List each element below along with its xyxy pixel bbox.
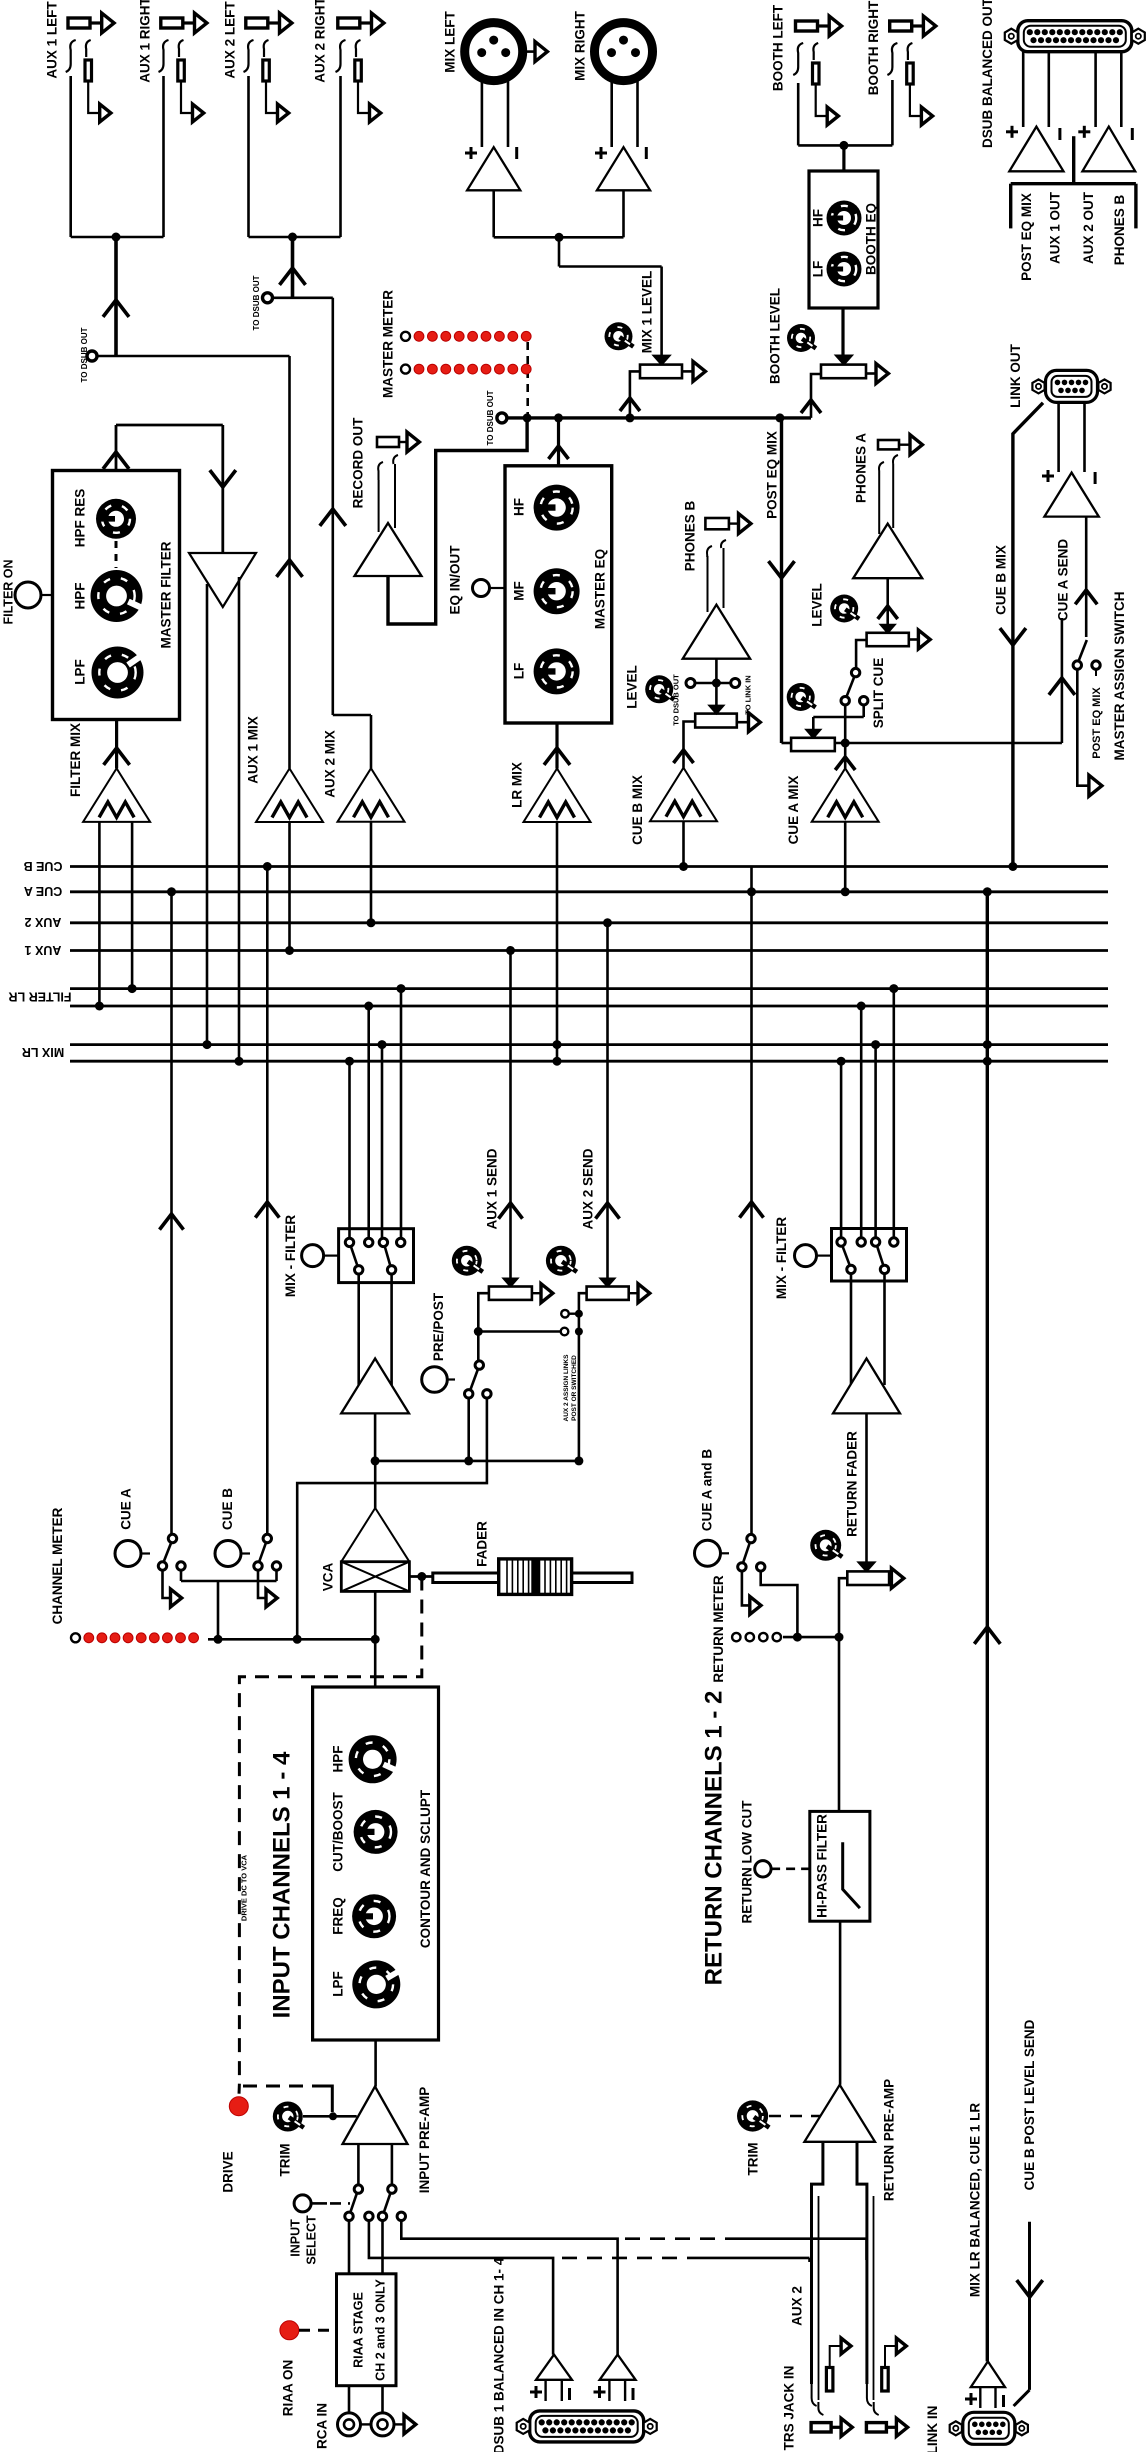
amp DSUB1 in L [530, 2355, 572, 2401]
svg-text:DSUB BALANCED OUT: DSUB BALANCED OUT [980, 0, 995, 148]
amp FILTER MIX [68, 720, 150, 822]
svg-text:TO DSUB OUT: TO DSUB OUT [80, 327, 89, 382]
amp dsub out 1 [1006, 52, 1064, 171]
svg-text:LEVEL: LEVEL [810, 583, 825, 627]
wire MIX amps feed [494, 190, 662, 356]
svg-text:LINK IN: LINK IN [925, 2406, 940, 2452]
led DRIVE [221, 2097, 249, 2193]
amp CUE A MIX [786, 743, 879, 844]
bus MIX LR [22, 1045, 1108, 1062]
wire switch to post amp [359, 1274, 392, 1385]
block BOOTH EQ [809, 171, 879, 308]
wire cue tap return channel [740, 867, 764, 1535]
svg-text:TRS JACK IN: TRS JACK IN [782, 2366, 797, 2451]
svg-text:TRIM: TRIM [278, 2144, 293, 2177]
wire record amp feed [388, 418, 527, 624]
svg-text:CUE B: CUE B [220, 1488, 235, 1530]
amp MIX RIGHT driver [595, 80, 650, 190]
wire dsub1 to return (dashed) [562, 2239, 867, 2262]
switch RETURN LOW CUT [739, 1800, 810, 1924]
wire AUX1 jacks join [71, 76, 164, 242]
svg-text:RCA IN: RCA IN [315, 2403, 330, 2449]
svg-text:HPF: HPF [73, 583, 88, 610]
svg-text:CUE A MIX: CUE A MIX [786, 776, 801, 845]
pot MIX 1 LEVEL [605, 271, 706, 418]
amp AUX 2 MIX [323, 730, 405, 822]
wire return assign to buses [837, 984, 899, 1238]
svg-text:DSUB 1 BALANCED IN CH 1- 4: DSUB 1 BALANCED IN CH 1- 4 [491, 2257, 506, 2452]
svg-text:FREQ: FREQ [331, 1897, 346, 1935]
wire AUX 2 MIX input [367, 822, 376, 928]
svg-text:PHONES B: PHONES B [682, 500, 697, 571]
node TO DSUB OUT (post eq) [486, 390, 507, 445]
amp PHONES B [683, 548, 750, 659]
svg-text:FILTER MIX: FILTER MIX [68, 723, 83, 797]
wire return preamp inputs [812, 2142, 874, 2400]
label RETURN CHANNELS 1 - 2 [700, 1691, 727, 1986]
switch box MIX-FILTER (input) [283, 1215, 414, 1297]
wire CUE A SEND [1049, 539, 1075, 743]
svg-text:POST EQ MIX: POST EQ MIX [1091, 687, 1103, 759]
svg-text:MF: MF [512, 581, 527, 601]
svg-text:AUX 2 MIX: AUX 2 MIX [323, 730, 338, 798]
pot BOOTH LEVEL fader [768, 288, 889, 418]
wire AUX 1 MIX input [285, 822, 294, 955]
wire hipass to preamp [839, 1921, 842, 2085]
wire FILTER MIX inputs [95, 822, 137, 1011]
meter MASTER METER [381, 290, 531, 418]
svg-text:RETURN PRE-AMP: RETURN PRE-AMP [882, 2079, 897, 2201]
amp channel post amp [341, 1359, 409, 1462]
svg-text:LEVEL: LEVEL [625, 665, 640, 709]
svg-text:HF: HF [811, 209, 826, 227]
block CONTOUR AND SCULPT [268, 1687, 438, 2040]
svg-text:RETURN FADER: RETURN FADER [845, 1431, 860, 1537]
node TO DSUB OUT (aux2) [252, 275, 273, 330]
wire post-fade send rail [371, 1456, 584, 1465]
svg-text:CHANNEL METER: CHANNEL METER [50, 1507, 65, 1624]
svg-text:CUE B POST LEVEL SEND: CUE B POST LEVEL SEND [1022, 2019, 1037, 2190]
svg-text:TRIM: TRIM [745, 2143, 760, 2176]
amp filter return inverter [189, 553, 256, 607]
block HI-PASS FILTER [810, 1811, 870, 1921]
wire POST EQ MIX rail [507, 413, 811, 422]
wire CUE B POST LEVEL SEND [1014, 2019, 1043, 2406]
wire AUX1 to dsub/mix [97, 237, 303, 769]
svg-text:PHONES B: PHONES B [1112, 194, 1127, 265]
svg-text:INPUT: INPUT [288, 2219, 302, 2257]
jack AUX 1 RIGHT [138, 0, 207, 122]
switch CUE A and B (return) [695, 1449, 798, 1637]
node TO DSUB OUT (aux1) [80, 327, 97, 382]
svg-text:SPLIT CUE: SPLIT CUE [871, 658, 886, 729]
svg-text:CUE A: CUE A [24, 884, 62, 898]
bus AUX 1 [25, 943, 1108, 957]
vca VCA [321, 1461, 410, 1591]
amp return post amp [833, 1359, 900, 1564]
switch MASTER ASSIGN SWITCH [1073, 517, 1127, 797]
svg-text:POST OR SWITCHED: POST OR SWITCHED [571, 1355, 578, 1421]
svg-text:AUX 2 LEFT: AUX 2 LEFT [223, 1, 238, 79]
svg-text:INPUT CHANNELS 1 - 4: INPUT CHANNELS 1 - 4 [268, 1751, 295, 2018]
svg-text:HPF: HPF [331, 1746, 346, 1773]
svg-text:INPUT PRE-AMP: INPUT PRE-AMP [417, 2087, 432, 2194]
svg-text:AUX 1 SEND: AUX 1 SEND [484, 1148, 499, 1229]
svg-text:CONTOUR AND SCLUPT: CONTOUR AND SCLUPT [418, 1789, 433, 1948]
switch EQ IN/OUT [448, 545, 505, 615]
svg-text:CH 2 and 3 ONLY: CH 2 and 3 ONLY [373, 2279, 387, 2381]
svg-text:BOOTH LEFT: BOOTH LEFT [771, 4, 786, 91]
svg-text:RETURN LOW CUT: RETURN LOW CUT [739, 1800, 754, 1924]
svg-text:RETURN METER: RETURN METER [711, 1575, 726, 1682]
svg-text:FADER: FADER [474, 1521, 489, 1567]
svg-text:RIAA ON: RIAA ON [281, 2360, 296, 2417]
svg-text:TO LINK IN: TO LINK IN [744, 675, 753, 714]
svg-text:POST EQ MIX: POST EQ MIX [1019, 193, 1034, 281]
wire POST EQ MIX feed [764, 418, 794, 743]
block RIAA STAGE [337, 2274, 397, 2386]
bus AUX 2 [25, 915, 1108, 929]
svg-text:LINK OUT: LINK OUT [1008, 343, 1023, 407]
pot TRIM (return) [737, 2100, 821, 2175]
svg-text:MIX - FILTER: MIX - FILTER [774, 1217, 789, 1299]
svg-text:MIX LR: MIX LR [22, 1045, 64, 1059]
link AUX 2 assign [474, 1310, 583, 1461]
switch PRE/POST [297, 1292, 491, 1639]
amp LR MIX [510, 723, 591, 822]
amp RECORD OUT [355, 523, 422, 576]
svg-text:TO DSUB OUT: TO DSUB OUT [672, 674, 681, 726]
pot TRIM (input) [273, 2102, 357, 2177]
pot PHONES A LEVEL [810, 578, 931, 668]
wire CUE B MIX to link out [994, 403, 1043, 871]
svg-text:AUX 1 LEFT: AUX 1 LEFT [45, 1, 60, 79]
svg-text:DRIVE DC TO VCA: DRIVE DC TO VCA [239, 1854, 248, 1921]
pot CUE A LEVEL fader [787, 683, 835, 751]
svg-text:MASTER ASSIGN SWITCH: MASTER ASSIGN SWITCH [1112, 591, 1127, 760]
svg-text:LPF: LPF [73, 659, 88, 685]
svg-text:EQ IN/OUT: EQ IN/OUT [448, 545, 463, 615]
svg-text:AUX 2 SEND: AUX 2 SEND [581, 1148, 596, 1229]
svg-text:MIX 1 LEVEL: MIX 1 LEVEL [640, 271, 655, 354]
wire LR MIX input [553, 822, 562, 1066]
svg-text:RECORD OUT: RECORD OUT [351, 417, 366, 509]
jack TRS JACK IN 2 [782, 2338, 908, 2450]
block MASTER FILTER [53, 471, 180, 720]
switch SPLIT CUE [806, 658, 886, 743]
connector DSUB BALANCED OUT [980, 0, 1145, 148]
svg-text:AUX 2 OUT: AUX 2 OUT [1081, 191, 1096, 264]
wire filter to inverter [103, 425, 236, 553]
led RIAA ON [280, 2321, 337, 2416]
svg-text:AUX 1 OUT: AUX 1 OUT [1047, 191, 1062, 264]
node TO DSUB OUT / TO LINK IN [672, 659, 753, 726]
wire AUX2 jacks join [249, 76, 341, 242]
svg-text:HF: HF [512, 498, 527, 516]
svg-text:CUE A and B: CUE A and B [700, 1449, 715, 1532]
svg-text:FILTER LR: FILTER LR [9, 990, 72, 1004]
svg-text:AUX 2: AUX 2 [25, 915, 62, 929]
svg-text:MIX LR BALANCED, CUE 1 LR: MIX LR BALANCED, CUE 1 LR [967, 2103, 982, 2298]
svg-text:TO DSUB OUT: TO DSUB OUT [486, 390, 495, 445]
svg-text:LR MIX: LR MIX [510, 762, 525, 808]
wire inverter to MIX LR buses [203, 577, 244, 1066]
jack TRS JACK IN 1 [790, 2286, 853, 2436]
amp dsub out 2 [1078, 52, 1135, 171]
bus CUE A [24, 884, 1108, 898]
jack BOOTH LEFT [771, 4, 842, 125]
switch FILTER ON [1, 559, 52, 624]
svg-text:HI-PASS FILTER: HI-PASS FILTER [815, 1814, 830, 1918]
fader FADER [409, 1521, 632, 1595]
svg-text:AUX 1 RIGHT: AUX 1 RIGHT [138, 0, 153, 83]
svg-text:BOOTH LEVEL: BOOTH LEVEL [768, 288, 783, 384]
svg-text:CUE B MIX: CUE B MIX [630, 775, 645, 845]
svg-text:RIAA STAGE: RIAA STAGE [351, 2292, 365, 2368]
amp PHONES A [853, 524, 922, 579]
connector MIX RIGHT XLR [573, 10, 653, 81]
amp LINK IN [965, 2103, 1005, 2408]
amp DSUB1 in R [594, 2355, 636, 2401]
wire cue switches to meter line [181, 1570, 277, 1639]
wire EQ out to rail [549, 418, 569, 466]
svg-text:PHONES A: PHONES A [854, 433, 869, 503]
svg-text:RETURN CHANNELS 1 - 2: RETURN CHANNELS 1 - 2 [700, 1691, 727, 1986]
svg-text:SELECT: SELECT [304, 2215, 318, 2265]
pot AUX 2 SEND [546, 918, 650, 1313]
bus CUE B [24, 859, 1108, 873]
wire drive dc to vca (dashed) [239, 1577, 422, 2113]
wire input select wiring [349, 2221, 618, 2355]
amp LINK OUT driver [1042, 403, 1099, 517]
svg-text:VCA: VCA [321, 1563, 336, 1592]
svg-text:CUE A: CUE A [119, 1488, 134, 1530]
svg-text:MIX RIGHT: MIX RIGHT [573, 10, 588, 81]
svg-text:AUX 2: AUX 2 [790, 2286, 805, 2326]
svg-text:CUE B MIX: CUE B MIX [994, 545, 1009, 615]
meter CHANNEL METER [50, 1507, 375, 1643]
wire CUE B MIX input [679, 821, 688, 871]
svg-text:LPF: LPF [331, 1971, 346, 1997]
wire LINK IN to buses [974, 887, 1000, 2361]
amp CUE B MIX [630, 768, 717, 845]
svg-text:AUX 2 ASSIGN LINKS: AUX 2 ASSIGN LINKS [563, 1354, 570, 1422]
svg-text:DRIVE: DRIVE [221, 2151, 236, 2192]
wire vca to contour box [371, 1591, 380, 1687]
svg-text:MIX LEFT: MIX LEFT [443, 11, 458, 73]
svg-text:TO DSUB OUT: TO DSUB OUT [252, 275, 261, 330]
bus FILTER LR [9, 989, 1108, 1006]
amp AUX 1 MIX [246, 716, 324, 822]
wire CUE B tap to channel [255, 862, 279, 1535]
wire AUX2 to dsub/mix [272, 237, 371, 768]
wire return switch to post amp [851, 1274, 885, 1385]
svg-text:MASTER METER: MASTER METER [381, 290, 396, 398]
wire dsub out bracket [1011, 136, 1136, 281]
svg-text:PRE/POST: PRE/POST [431, 1292, 446, 1361]
svg-text:AUX 2 RIGHT: AUX 2 RIGHT [313, 0, 328, 83]
wire contour to preamp [374, 2040, 377, 2087]
wire input assign to buses [345, 984, 406, 1238]
amp RETURN PRE-AMP [804, 2079, 896, 2201]
pot PHONES B LEVEL fader [625, 665, 761, 767]
pot AUX 1 SEND [452, 946, 553, 1332]
connector MIX LEFT XLR [443, 11, 548, 81]
wire CUE A MIX input [841, 822, 850, 897]
switch INPUT SELECT [288, 2144, 405, 2265]
connector DSUB 1 IN [491, 2257, 656, 2452]
jack AUX 2 RIGHT [313, 0, 384, 122]
svg-text:CUE B: CUE B [24, 859, 63, 873]
jack BOOTH RIGHT [866, 0, 936, 125]
jack PHONES A [854, 433, 923, 534]
wire booth jacks join [798, 80, 892, 171]
svg-text:CUT/BOOST: CUT/BOOST [331, 1791, 346, 1871]
svg-text:CUE A SEND: CUE A SEND [1056, 539, 1071, 622]
svg-text:MIX - FILTER: MIX - FILTER [283, 1215, 298, 1297]
svg-text:AUX 1: AUX 1 [25, 943, 62, 957]
amp MIX LEFT driver [465, 80, 520, 190]
svg-text:HPF RES: HPF RES [73, 489, 88, 548]
svg-text:FILTER ON: FILTER ON [1, 559, 15, 624]
svg-text:MASTER FILTER: MASTER FILTER [159, 541, 174, 648]
connector LINK OUT DB9 [1008, 343, 1110, 407]
wire CUE A tap to channel [160, 887, 184, 1534]
switch CUE B (input) [215, 1488, 281, 1607]
jack PHONES B [682, 500, 751, 571]
amp INPUT PRE-AMP [343, 2087, 433, 2194]
switch box MIX-FILTER (return) [774, 1217, 906, 1299]
svg-text:AUX 1 MIX: AUX 1 MIX [246, 716, 261, 784]
connector LINK IN DB9 [925, 2406, 1028, 2452]
connector RCA IN [315, 2386, 416, 2449]
pot RETURN FADER [810, 1431, 904, 1812]
block MASTER EQ [505, 466, 612, 723]
jack AUX 2 LEFT [223, 1, 292, 122]
svg-text:MASTER EQ: MASTER EQ [593, 549, 608, 629]
meter RETURN METER [711, 1575, 839, 1682]
jack RECORD OUT [351, 417, 420, 532]
svg-text:BOOTH EQ: BOOTH EQ [864, 203, 879, 275]
jack AUX 1 LEFT [45, 1, 114, 122]
svg-text:LF: LF [811, 261, 826, 278]
wire cue A send rail [835, 739, 1062, 748]
svg-text:POST EQ MIX: POST EQ MIX [764, 431, 779, 519]
switch CUE A (input) [115, 1488, 185, 1607]
svg-text:BOOTH RIGHT: BOOTH RIGHT [866, 0, 881, 95]
svg-text:LF: LF [512, 663, 527, 680]
